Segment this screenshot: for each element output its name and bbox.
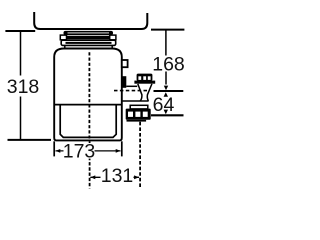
mount ring R2 left tab <box>60 35 66 40</box>
elbow pipe top edge <box>126 85 137 87</box>
node dishwasher inlet centerline solid right segment <box>154 90 184 92</box>
dim 168 vertical line lower with down arrow <box>165 72 167 85</box>
boss on upper right of body <box>122 60 128 67</box>
svg-text:131: 131 <box>101 165 134 187</box>
dim 318 top tick bar <box>5 30 35 32</box>
outlet white square 1 <box>128 112 133 117</box>
cap white square 2 <box>143 76 146 80</box>
outlet bottom lip <box>127 120 147 122</box>
dim 318 vertical line lower <box>20 97 22 140</box>
mount ring R2 right tab <box>110 35 116 40</box>
outlet top plate <box>130 105 148 109</box>
label 131 halo <box>101 167 134 183</box>
mount ring R1 white slit <box>68 32 110 34</box>
disposer body outline <box>54 49 122 141</box>
cap white square 1 <box>138 76 141 80</box>
dim 173 left tick <box>53 141 55 156</box>
dim 64 down arrowhead <box>164 110 168 115</box>
svg-text:64: 64 <box>153 94 175 116</box>
node outlet centerline solid right segment <box>151 114 184 116</box>
dashed dishwasher centerline <box>114 90 148 92</box>
dim 131 left arrowhead <box>90 175 95 179</box>
elbow black tab at body wall <box>122 76 127 88</box>
inner lower housing <box>60 105 116 138</box>
body seam line <box>54 104 122 106</box>
collar right edge <box>111 45 113 48</box>
dim 173 right arrowhead <box>116 149 121 153</box>
dim 173 right tick <box>121 141 123 156</box>
dim 131 right arrowhead <box>134 175 139 179</box>
elbow pipe bottom edge <box>122 100 149 102</box>
svg-text:173: 173 <box>63 141 96 163</box>
dim 168 top tick bar <box>151 29 184 31</box>
cap white square 3 <box>148 76 151 80</box>
dim 64 up arrowhead <box>164 92 168 97</box>
dim 173 line <box>56 150 121 152</box>
outlet white square 2 <box>135 112 140 117</box>
mount ring R2 center band <box>67 36 110 39</box>
dim 318 vertical line upper <box>20 31 22 76</box>
dim 168 arrowhead down <box>164 86 168 91</box>
dishwasher inlet cap <box>137 74 153 81</box>
dim 318 bottom tick bar <box>8 139 52 141</box>
outlet white square 3 <box>143 112 148 117</box>
dashed body centerline upper <box>88 52 90 138</box>
svg-text:168: 168 <box>152 54 185 76</box>
wire sink counter line with left and right upturned stubs <box>34 12 147 29</box>
mount ring R3 center band <box>66 42 112 44</box>
dishwasher inlet cap plate <box>134 81 155 84</box>
outlet main block <box>126 109 151 120</box>
dashed body centerline lower <box>89 141 91 188</box>
funnel right profile <box>147 84 152 101</box>
funnel left profile <box>138 84 142 101</box>
dim 131 line <box>90 176 139 178</box>
mount ring R3 <box>61 40 115 45</box>
collar left edge <box>64 45 66 48</box>
dim 168 vertical line upper <box>165 30 167 56</box>
dashed outlet centerline <box>139 122 141 189</box>
dim 173 left arrowhead <box>55 149 60 153</box>
label 173 halo <box>64 143 95 159</box>
mount ring R1 (sink flange) <box>64 31 114 35</box>
svg-text:318: 318 <box>7 76 40 98</box>
